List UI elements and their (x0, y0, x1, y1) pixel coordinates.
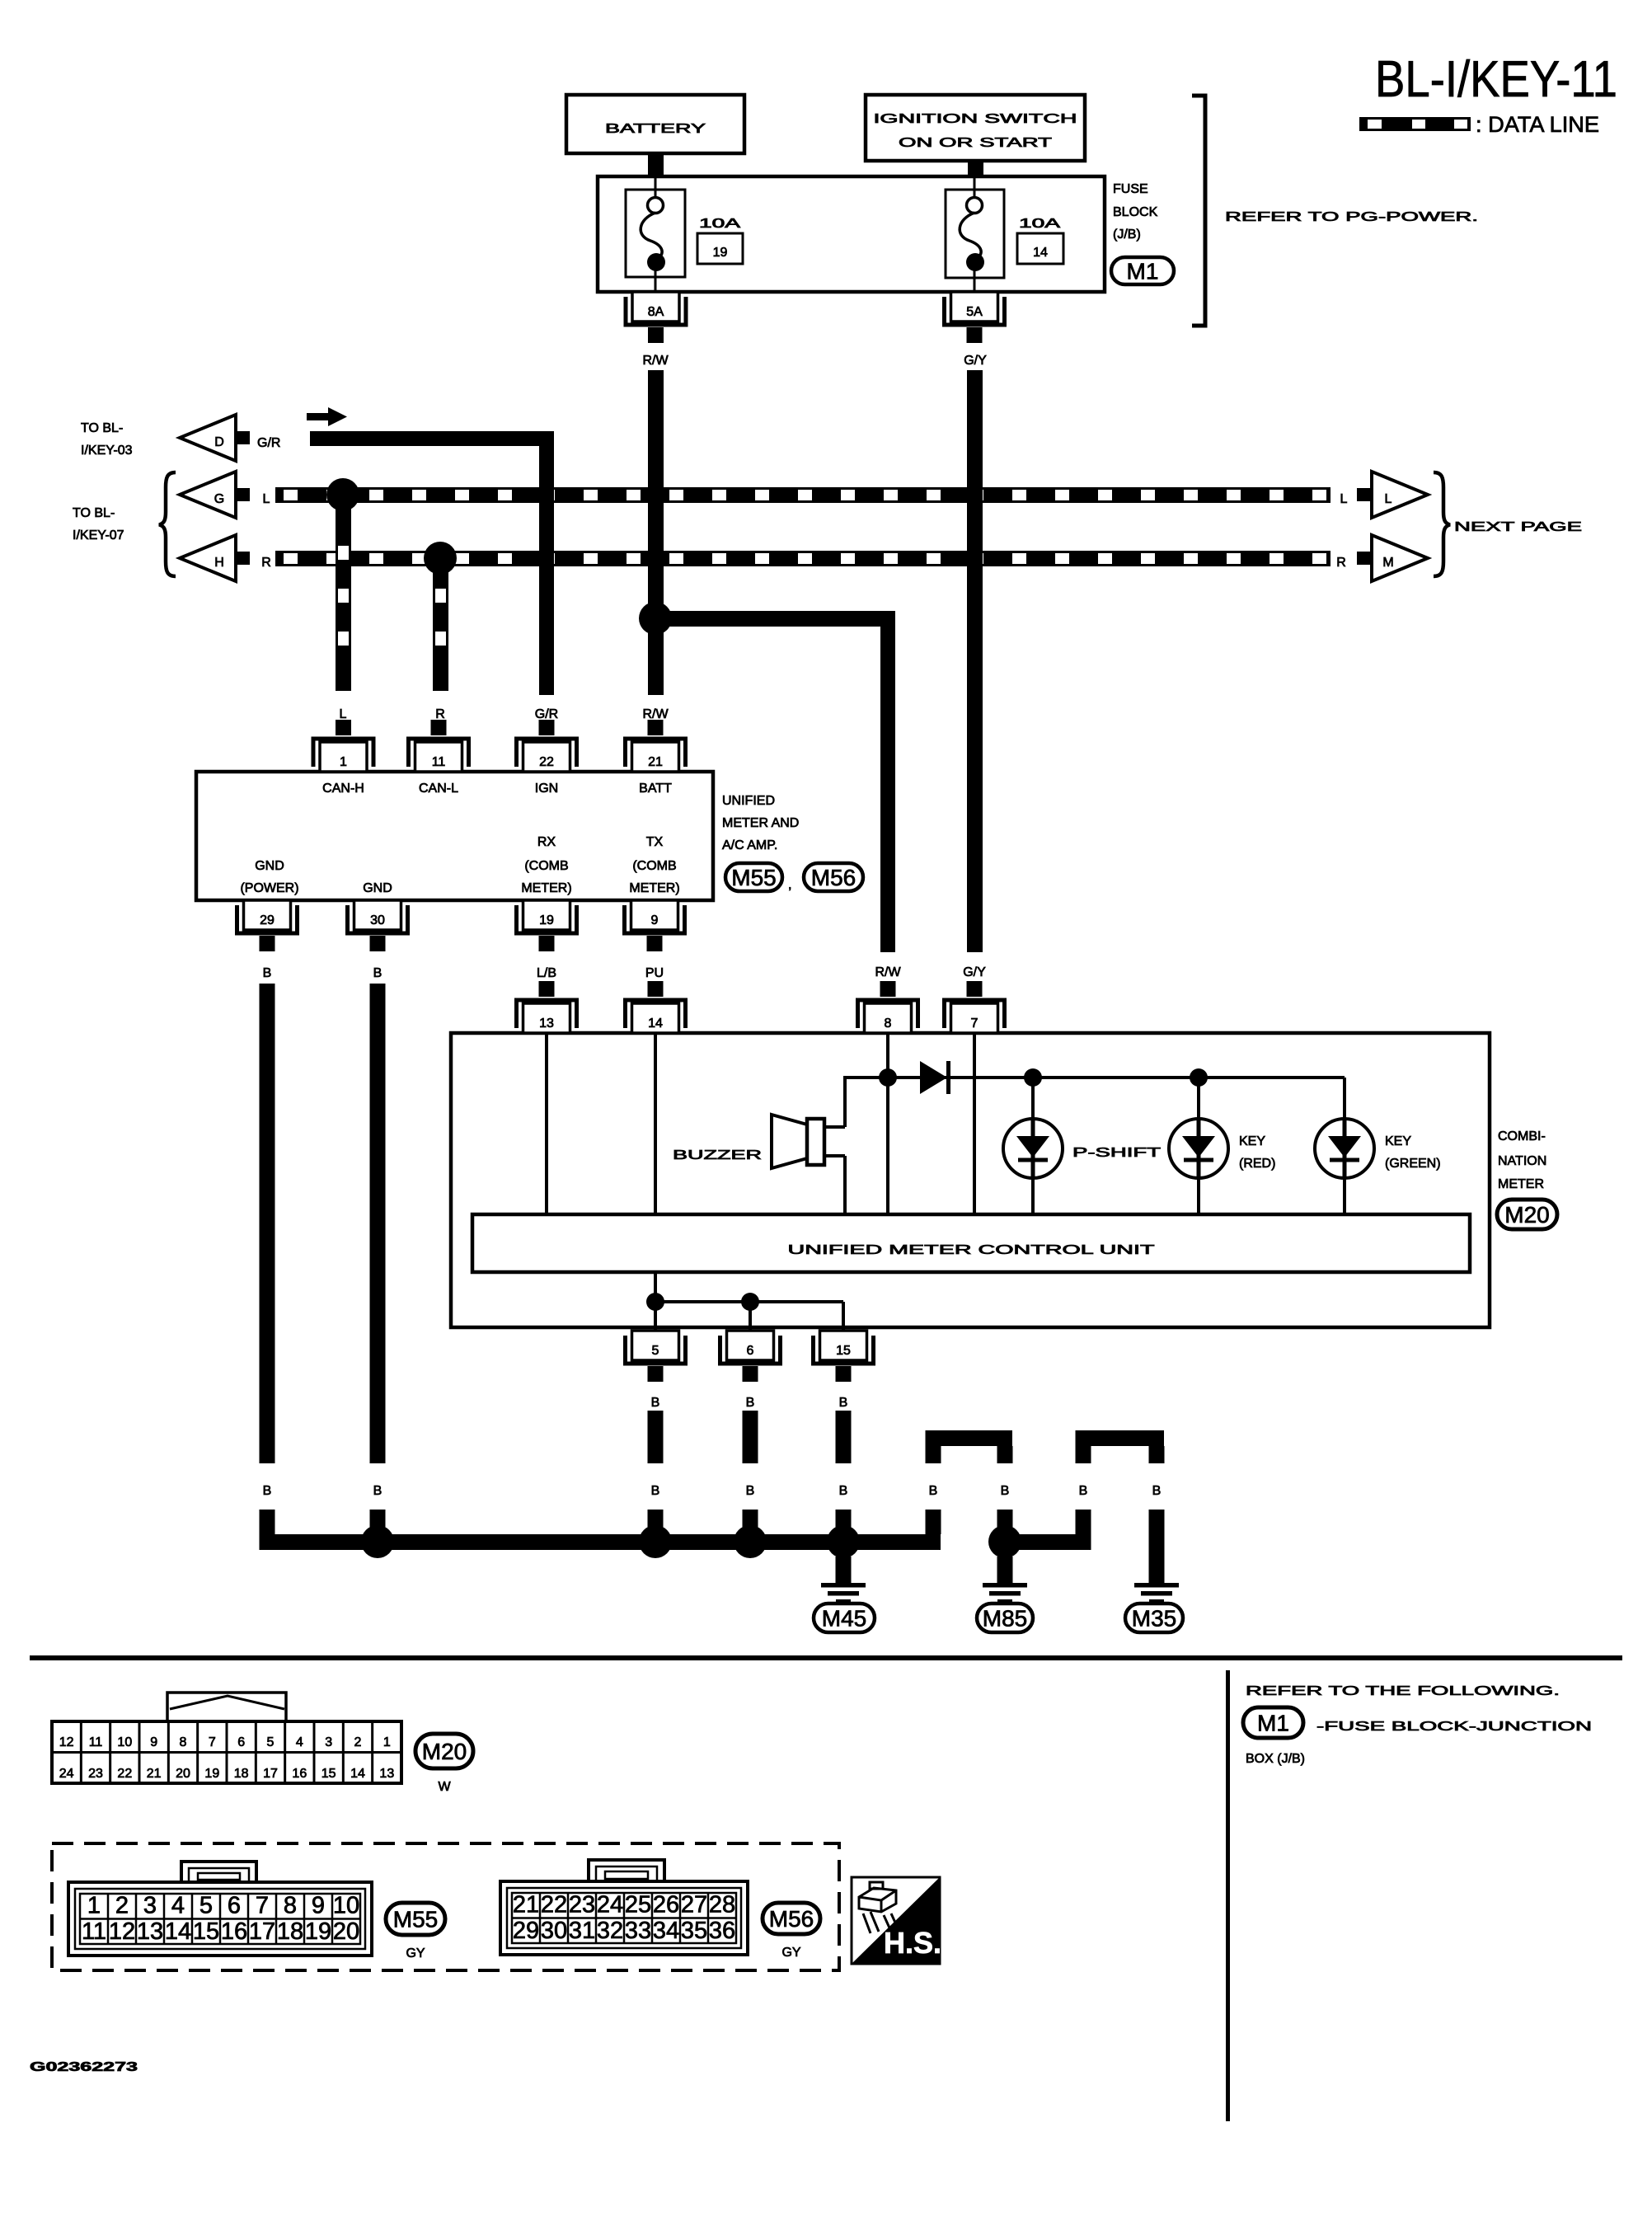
data line L vertical (336, 495, 351, 691)
svg-text:M1: M1 (1257, 1711, 1289, 1736)
svg-text:R: R (435, 707, 445, 721)
LED KEY RED (1169, 1078, 1228, 1214)
diode D1 (920, 1061, 949, 1094)
combination meter box (451, 1033, 1490, 1327)
svg-text:29: 29 (513, 1918, 539, 1944)
svg-text:B: B (1079, 1484, 1088, 1498)
svg-text:28: 28 (709, 1892, 735, 1918)
svg-text:2: 2 (115, 1893, 129, 1919)
wire to pin6 (749, 1302, 752, 1331)
wire control unit to pin5 (654, 1272, 657, 1331)
junction dot pin6 gnd (734, 1525, 767, 1558)
svg-text:GY: GY (406, 1946, 425, 1960)
svg-text:H: H (214, 556, 224, 570)
svg-text:6: 6 (237, 1735, 245, 1749)
svg-text:15: 15 (836, 1344, 851, 1358)
page arrow H (180, 535, 236, 581)
svg-text:(COMB: (COMB (524, 859, 568, 873)
svg-text:M20: M20 (422, 1739, 467, 1764)
wire R/W vertical from fuse (648, 370, 664, 695)
svg-text:KEY: KEY (1385, 1134, 1411, 1148)
svg-text:I/KEY-03: I/KEY-03 (81, 444, 133, 458)
svg-text:G02362273: G02362273 (30, 2060, 138, 2074)
svg-text:REFER TO THE FOLLOWING.: REFER TO THE FOLLOWING. (1246, 1684, 1560, 1698)
ground M35 (1125, 1583, 1183, 1632)
svg-text:M20: M20 (1504, 1202, 1549, 1228)
svg-text:8A: 8A (648, 305, 664, 319)
brace right (1434, 472, 1450, 576)
svg-text:30: 30 (541, 1918, 567, 1944)
svg-text:M35: M35 (1132, 1606, 1176, 1632)
label TO BL-I/KEY-07 (73, 506, 124, 542)
svg-text:M56: M56 (769, 1906, 814, 1932)
svg-text:10: 10 (333, 1893, 359, 1919)
connector table M56 (500, 1881, 748, 1955)
svg-text:9: 9 (312, 1893, 325, 1919)
divider line (1226, 1670, 1230, 2121)
connector oval M20 W (415, 1734, 473, 1794)
buzzer upper wire (843, 1076, 847, 1127)
svg-text:BUZZER: BUZZER (673, 1148, 762, 1162)
svg-text:G: G (214, 492, 224, 506)
svg-text:BL-I/KEY-11: BL-I/KEY-11 (1375, 51, 1617, 108)
svg-text:24: 24 (597, 1892, 623, 1918)
svg-text:(RED): (RED) (1239, 1157, 1275, 1171)
connector 21 (626, 720, 686, 772)
svg-text:METER): METER) (629, 881, 679, 895)
svg-text:9: 9 (150, 1735, 157, 1749)
n-link 2 right leg (1149, 1446, 1165, 1463)
svg-text:10A: 10A (1019, 217, 1061, 231)
junction dot L (326, 478, 359, 511)
svg-text:FUSE: FUSE (1113, 182, 1148, 196)
svg-text:(COMB: (COMB (632, 859, 676, 873)
svg-text:B: B (1001, 1484, 1010, 1498)
connector 5 (626, 1331, 686, 1382)
svg-text:METER AND: METER AND (722, 816, 799, 830)
svg-text:P-SHIFT: P-SHIFT (1072, 1146, 1161, 1160)
block label UNIFIED METER AND A/C AMP. (722, 794, 799, 852)
svg-text:BOX (J/B): BOX (J/B) (1246, 1752, 1305, 1766)
svg-text:35: 35 (681, 1918, 707, 1944)
svg-text:29: 29 (260, 913, 275, 927)
junction dot R (424, 542, 457, 575)
svg-text:R/W: R/W (642, 707, 669, 721)
svg-text:18: 18 (277, 1918, 303, 1945)
svg-text:19: 19 (539, 913, 554, 927)
junction dot pin5 (646, 1293, 664, 1311)
connector oval M55 GY (386, 1903, 445, 1960)
svg-text:R/W: R/W (875, 965, 901, 979)
wire B segment gnd (370, 1510, 386, 1534)
svg-text:4: 4 (296, 1735, 303, 1749)
svg-text:15: 15 (193, 1918, 219, 1945)
svg-text:31: 31 (569, 1918, 595, 1944)
wire B pin6 (743, 1411, 758, 1463)
stub G (237, 488, 250, 501)
buzzer lower wire (824, 1154, 845, 1157)
junction dot key red (1190, 1068, 1208, 1087)
svg-text:L: L (1385, 492, 1392, 506)
svg-text:14: 14 (165, 1918, 191, 1945)
svg-text:13: 13 (137, 1918, 163, 1945)
label KEY (RED) (1239, 1134, 1275, 1171)
fuse number box 19 (697, 233, 743, 264)
svg-text:22: 22 (541, 1892, 567, 1918)
svg-text:10A: 10A (699, 217, 741, 231)
wire G/R horizontal (310, 431, 554, 446)
svg-text:B: B (263, 966, 272, 980)
svg-text:14: 14 (1033, 246, 1048, 260)
svg-text:B: B (263, 1484, 272, 1498)
svg-text:7: 7 (209, 1735, 216, 1749)
svg-text:23: 23 (569, 1892, 595, 1918)
page arrow M (1372, 535, 1428, 581)
junction dot pin6 (741, 1293, 759, 1311)
svg-text:A/C AMP.: A/C AMP. (722, 838, 777, 852)
svg-text:14: 14 (648, 1017, 663, 1031)
junction dot M45 (827, 1525, 860, 1558)
connector 29 (237, 900, 298, 951)
svg-text:PU: PU (645, 966, 664, 980)
wire R/W branch horizontal (655, 611, 895, 627)
svg-text:NATION: NATION (1498, 1154, 1546, 1168)
svg-text:B: B (839, 1484, 848, 1498)
svg-text:15: 15 (321, 1767, 336, 1781)
svg-text:M: M (1382, 556, 1393, 570)
connector 5A (945, 292, 1005, 343)
svg-text:11: 11 (89, 1735, 103, 1749)
connector oval M56 (804, 863, 863, 891)
svg-text:,: , (788, 878, 791, 892)
svg-text:2: 2 (354, 1735, 362, 1749)
svg-text:: DATA LINE: : DATA LINE (1476, 112, 1599, 137)
wire B segment pin6 (743, 1510, 758, 1534)
connector table M55 (68, 1882, 372, 1956)
svg-text:30: 30 (370, 913, 385, 927)
connector 15 (814, 1331, 874, 1382)
svg-text:REFER TO PG-POWER.: REFER TO PG-POWER. (1225, 210, 1478, 224)
connector oval M1 note (1243, 1707, 1303, 1738)
wire ignition to fuse block (968, 161, 983, 175)
n-link 2 top (1076, 1430, 1165, 1446)
svg-text:19: 19 (305, 1918, 331, 1945)
svg-text:G/Y: G/Y (964, 354, 987, 368)
brace left (159, 472, 176, 576)
connector 8 (858, 981, 918, 1033)
svg-text:26: 26 (653, 1892, 679, 1918)
svg-text:GND: GND (363, 881, 392, 895)
wire B gnd (370, 984, 386, 1463)
block label COMBINATION METER (1498, 1129, 1546, 1191)
M55 latch (181, 1862, 256, 1882)
wire G/Y vertical from fuse (967, 370, 983, 952)
dashed harness box (52, 1843, 839, 1970)
svg-text:L: L (340, 707, 347, 721)
svg-text:19: 19 (204, 1767, 219, 1781)
svg-text:8: 8 (284, 1893, 297, 1919)
svg-text:21: 21 (513, 1892, 539, 1918)
connector 9 (625, 900, 685, 951)
data line R vertical (433, 558, 448, 691)
svg-text:24: 24 (59, 1767, 74, 1781)
svg-text:13: 13 (379, 1767, 394, 1781)
svg-text:12: 12 (59, 1735, 74, 1749)
ground link wire (655, 1300, 843, 1303)
svg-text:16: 16 (292, 1767, 307, 1781)
svg-text:34: 34 (653, 1918, 679, 1944)
H.S. badge (852, 1877, 941, 1964)
separator line (30, 1655, 1622, 1660)
svg-text:G/Y: G/Y (963, 965, 986, 979)
svg-text:B: B (839, 1396, 848, 1410)
label TO BL-I/KEY-03 (81, 421, 133, 458)
connector 6 (720, 1331, 781, 1382)
svg-text:1: 1 (383, 1735, 391, 1749)
fuse F19 10A (626, 176, 685, 292)
svg-text:7: 7 (971, 1017, 979, 1031)
svg-text:BATTERY: BATTERY (605, 122, 706, 136)
wire B segment pin5 (648, 1510, 664, 1534)
svg-text:H.S.: H.S. (884, 1926, 941, 1960)
svg-text:RX: RX (537, 835, 556, 849)
stub H (237, 552, 250, 565)
svg-text:M45: M45 (822, 1606, 866, 1632)
connector 14 (626, 981, 686, 1033)
svg-text:GND: GND (255, 859, 284, 873)
svg-text:17: 17 (263, 1767, 278, 1781)
n-link 1 left leg (926, 1446, 941, 1463)
junction dot pin8 (879, 1068, 897, 1087)
stub L right (1357, 488, 1371, 501)
svg-text:17: 17 (249, 1918, 275, 1945)
svg-text:21: 21 (648, 755, 663, 769)
svg-text:KEY: KEY (1239, 1134, 1265, 1148)
svg-text:L: L (1340, 492, 1348, 506)
ignition switch box (866, 95, 1085, 161)
svg-text:B: B (373, 966, 382, 980)
svg-text:(GREEN): (GREEN) (1385, 1157, 1441, 1171)
svg-text:B: B (746, 1396, 755, 1410)
svg-text:7: 7 (256, 1893, 269, 1919)
svg-text:1: 1 (340, 755, 347, 769)
junction dot R/W (639, 602, 672, 635)
svg-text:G/R: G/R (535, 707, 558, 721)
connector 13 (517, 981, 577, 1033)
connector 11 (409, 720, 469, 772)
svg-text:22: 22 (117, 1767, 132, 1781)
connector oval M1 (1111, 257, 1174, 284)
svg-text:11: 11 (82, 1918, 106, 1945)
data line legend (1359, 112, 1599, 137)
wire pin8 to control unit (886, 1033, 889, 1214)
svg-text:1: 1 (87, 1893, 101, 1919)
svg-text:M1: M1 (1127, 259, 1159, 284)
svg-text:M55: M55 (393, 1907, 438, 1932)
connector 19 (517, 900, 577, 951)
svg-text:UNIFIED: UNIFIED (722, 794, 775, 808)
fuse number box 14 (1017, 233, 1063, 264)
svg-text:R/W: R/W (642, 354, 669, 368)
LED P-SHIFT (1003, 1078, 1063, 1214)
n-link 1 right leg (997, 1446, 1013, 1463)
svg-text:5: 5 (199, 1893, 213, 1919)
wire dot M85 to n-link 2 (1005, 1534, 1083, 1550)
svg-text:CAN-H: CAN-H (322, 782, 364, 796)
svg-text:(J/B): (J/B) (1113, 228, 1141, 242)
connector oval M56 GY (763, 1903, 820, 1960)
svg-text:IGNITION SWITCH: IGNITION SWITCH (874, 112, 1077, 126)
svg-text:6: 6 (747, 1344, 754, 1358)
M56 latch (589, 1860, 664, 1881)
svg-text:33: 33 (625, 1918, 651, 1944)
svg-text:9: 9 (651, 913, 659, 927)
svg-text:ON OR START: ON OR START (899, 136, 1052, 150)
svg-text:M56: M56 (811, 865, 856, 890)
connector 1 (313, 720, 373, 772)
svg-text:METER): METER) (521, 881, 571, 895)
wire B segment gnd power (260, 1510, 275, 1550)
connector oval M55 (725, 863, 782, 891)
battery box (566, 95, 744, 153)
svg-text:GY: GY (781, 1946, 800, 1960)
svg-text:3: 3 (143, 1893, 157, 1919)
svg-text:BLOCK: BLOCK (1113, 205, 1158, 219)
connector 8A (626, 292, 686, 343)
wire B segment pin15 (836, 1510, 852, 1534)
LED KEY GREEN (1315, 1078, 1374, 1214)
svg-text:13: 13 (539, 1017, 554, 1031)
unified meter and A/C amp block (196, 772, 713, 900)
svg-text:TX: TX (646, 835, 664, 849)
connector label FUSE BLOCK (J/B) (1113, 182, 1158, 242)
svg-text:16: 16 (221, 1918, 247, 1945)
wire B pin5 (648, 1411, 664, 1463)
svg-text:25: 25 (625, 1892, 651, 1918)
svg-text:TO BL-: TO BL- (81, 421, 123, 435)
pin label RX (COMB METER) (521, 835, 571, 895)
ground bus (260, 1534, 941, 1550)
wire pin7 to control unit (973, 1033, 976, 1214)
n-link 2 left leg (1076, 1446, 1091, 1463)
svg-text:METER: METER (1498, 1177, 1544, 1191)
page arrow D (180, 415, 236, 461)
svg-text:W: W (438, 1780, 451, 1794)
svg-text:R: R (261, 556, 271, 570)
ground M45 (814, 1557, 875, 1632)
svg-text:D: D (214, 435, 224, 449)
junction dot M85 (988, 1525, 1021, 1558)
wire pin13 to control unit (545, 1033, 548, 1214)
svg-text:32: 32 (597, 1918, 623, 1944)
svg-text:B: B (651, 1484, 660, 1498)
svg-text:L/B: L/B (537, 966, 556, 980)
svg-text:CAN-L: CAN-L (419, 782, 458, 796)
junction dot pin5 gnd (639, 1525, 672, 1558)
connector table M20 (52, 1721, 401, 1783)
internal bus wire (845, 1076, 1345, 1079)
ground M85 (977, 1557, 1033, 1632)
svg-text:B: B (373, 1484, 382, 1498)
svg-text:M55: M55 (731, 865, 776, 890)
svg-text:23: 23 (88, 1767, 103, 1781)
buzzer symbol (772, 1115, 824, 1168)
junction dot gnd (361, 1525, 394, 1558)
pin label TX (COMB METER) (629, 835, 679, 895)
svg-text:L: L (263, 492, 270, 506)
svg-text:18: 18 (234, 1767, 249, 1781)
svg-text:14: 14 (350, 1767, 365, 1781)
svg-text:21: 21 (147, 1767, 162, 1781)
svg-text:3: 3 (325, 1735, 332, 1749)
svg-text:4: 4 (171, 1893, 185, 1919)
wire battery to fuse block (648, 153, 664, 176)
svg-text:NEXT PAGE: NEXT PAGE (1454, 520, 1582, 534)
connector 22 (517, 720, 577, 772)
svg-text:G/R: G/R (257, 436, 280, 450)
svg-text:36: 36 (709, 1918, 735, 1944)
svg-text:8: 8 (180, 1735, 187, 1749)
svg-text:COMBI-: COMBI- (1498, 1129, 1546, 1143)
connector oval M20 (1497, 1200, 1557, 1229)
M20 latch (167, 1693, 286, 1721)
connector 7 (945, 981, 1005, 1033)
wire B gnd power (260, 984, 275, 1463)
stub D (237, 431, 250, 444)
svg-text:-FUSE BLOCK-JUNCTION: -FUSE BLOCK-JUNCTION (1316, 1720, 1592, 1734)
fuse block M1 box (598, 176, 1105, 292)
wire B pin15 (836, 1411, 852, 1463)
unified meter control unit box (472, 1214, 1470, 1272)
svg-text:B: B (1152, 1484, 1162, 1498)
svg-text:20: 20 (333, 1918, 359, 1945)
svg-text:BATT: BATT (639, 782, 672, 796)
svg-text:TO BL-: TO BL- (73, 506, 115, 520)
svg-text:10: 10 (117, 1735, 132, 1749)
junction dot p-shift (1024, 1068, 1042, 1087)
wire R/W branch vertical (880, 611, 895, 952)
wire to pin15 (842, 1302, 845, 1331)
label KEY (GREEN) (1385, 1134, 1441, 1171)
svg-text:19: 19 (713, 246, 728, 260)
svg-text:12: 12 (109, 1918, 135, 1945)
page arrow L (1372, 472, 1428, 518)
n-link 1 top (926, 1430, 1013, 1446)
data line L horizontal (275, 487, 1331, 503)
svg-text:20: 20 (176, 1767, 190, 1781)
svg-text:11: 11 (432, 755, 446, 769)
svg-text:5: 5 (267, 1735, 275, 1749)
svg-text:IGN: IGN (535, 782, 558, 796)
direction arrow (307, 407, 347, 426)
wire pin14 to control unit (654, 1033, 657, 1214)
stub M right (1357, 552, 1371, 565)
fuse F14 10A (946, 176, 1004, 292)
svg-text:UNIFIED METER CONTROL UNIT: UNIFIED METER CONTROL UNIT (788, 1243, 1155, 1257)
fuse block bracket (1192, 96, 1205, 326)
pin label GND (POWER) (240, 859, 298, 895)
svg-text:B: B (651, 1396, 660, 1410)
svg-text:22: 22 (539, 755, 554, 769)
svg-text:B: B (746, 1484, 755, 1498)
page arrow G (180, 472, 236, 518)
svg-text:I/KEY-07: I/KEY-07 (73, 528, 124, 542)
svg-text:R: R (1336, 556, 1346, 570)
connector 30 (348, 900, 408, 951)
svg-text:(POWER): (POWER) (240, 881, 298, 895)
svg-text:8: 8 (885, 1017, 892, 1031)
svg-text:5: 5 (652, 1344, 659, 1358)
